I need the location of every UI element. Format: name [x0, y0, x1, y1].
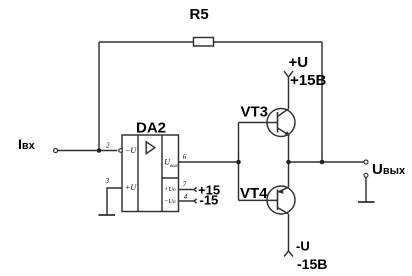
svg-text:4: 4	[184, 193, 188, 201]
svg-text:-15: -15	[200, 193, 219, 208]
op-amp DA2 triangle	[146, 142, 155, 154]
wire: VT4 collector down	[288, 214, 290, 251]
op-amp DA2 divider horizontal	[162, 177, 179, 179]
svg-text:-15В: -15В	[297, 256, 327, 272]
resistor R5	[194, 38, 214, 47]
svg-text:VT3: VT3	[241, 103, 269, 120]
ground at pin 3	[98, 214, 115, 216]
wire: pin 3	[107, 188, 122, 215]
+U supply terminal chevron	[284, 71, 293, 77]
wire: base column vertical	[238, 123, 240, 201]
svg-text:-U: -U	[296, 239, 310, 254]
output terminal Uвых	[364, 160, 368, 164]
svg-text:+Uп: +Uп	[164, 186, 176, 193]
op-amp U1 DA2 outline	[122, 135, 179, 212]
wire: feedback top horizontal	[99, 41, 322, 43]
svg-text:−U: −U	[125, 146, 137, 155]
node: emitter column junction	[286, 160, 291, 165]
wire: VT3 emitter column	[288, 135, 290, 187]
wire: output ground vertical	[365, 177, 367, 201]
node: feedback output junction	[320, 160, 325, 165]
wire: pin 7	[179, 189, 195, 191]
svg-text:+15В: +15В	[290, 72, 326, 89]
arrow pin 4	[194, 199, 196, 203]
svg-text:3: 3	[105, 177, 110, 185]
svg-text:2: 2	[106, 142, 110, 150]
svg-text:6: 6	[183, 153, 187, 161]
input terminal Iвх	[54, 149, 58, 153]
wire: feedback left vertical	[98, 42, 100, 151]
svg-text:DA2: DA2	[136, 120, 166, 137]
wire: VT3 collector up	[288, 77, 290, 109]
output ground terminal circle	[364, 173, 368, 177]
arrow pin 7	[194, 187, 196, 191]
svg-text:−Uп: −Uп	[164, 198, 176, 205]
node: base column junction	[236, 160, 241, 165]
wire: pin 4	[179, 200, 195, 202]
svg-text:R5: R5	[190, 6, 209, 23]
wire: output row right	[289, 161, 365, 163]
svg-text:VT4: VT4	[240, 185, 268, 202]
svg-text:Uвых: Uвых	[372, 161, 406, 178]
svg-text:+U: +U	[125, 183, 137, 192]
svg-text:Uвых: Uвых	[164, 158, 178, 170]
ground at output	[358, 201, 375, 203]
wire: pin 6 output row left	[179, 161, 239, 163]
op-amp DA2 divider left	[137, 135, 139, 212]
svg-text:+U: +U	[289, 54, 309, 71]
wire: input row	[58, 150, 118, 152]
wire: feedback right vertical	[321, 42, 323, 162]
wire: VT3 base	[239, 122, 278, 124]
op-amp DA2 divider right	[161, 135, 163, 212]
wire: VT4 base	[239, 199, 278, 201]
transistor Q2 VT4	[267, 186, 295, 214]
transistor Q1 VT3	[267, 109, 295, 137]
node: feedback/input junction	[97, 148, 102, 153]
-U supply terminal chevron	[284, 251, 293, 257]
svg-text:Iвх: Iвх	[18, 136, 36, 152]
svg-text:7: 7	[183, 180, 187, 188]
pin 2 inversion circle	[119, 149, 123, 153]
